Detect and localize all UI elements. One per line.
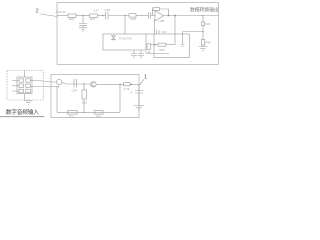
svg-text:R32: R32	[96, 115, 102, 119]
svg-text:R30: R30	[160, 48, 166, 52]
resistor R29 feedback	[153, 8, 160, 11]
svg-text:1: 1	[144, 75, 147, 81]
node junction D	[168, 15, 170, 17]
capacitor C32 between blocks	[147, 44, 151, 50]
svg-text:103: 103	[82, 101, 87, 105]
wire U2 pin down 1	[133, 50, 135, 54]
capacitor C34 series	[74, 79, 76, 87]
wire Q1 to R34	[96, 83, 123, 85]
resistor R33	[82, 90, 87, 99]
crystal Y1	[111, 36, 116, 40]
capacitor C26	[79, 24, 87, 26]
pin cell 4	[26, 84, 31, 87]
wire input L	[30, 81, 56, 83]
wire C27 to R28	[108, 15, 129, 17]
node junction B	[102, 15, 104, 17]
pin cell 2	[26, 79, 31, 82]
block border box 1 (bottom amplifier stage)	[51, 74, 139, 117]
node junction J	[202, 31, 204, 33]
leader line for label 2	[41, 14, 58, 17]
wire bottom rail	[57, 111, 120, 113]
node junction D2	[174, 15, 176, 17]
wire U2 pin down 2	[140, 50, 142, 54]
wire C33 to R35	[202, 26, 204, 40]
svg-text:数字音频输入: 数字音频输入	[6, 108, 39, 116]
pin cell 1	[19, 79, 24, 82]
node junction G	[83, 83, 85, 85]
svg-text:PCM1794: PCM1794	[119, 37, 132, 41]
wire op-amp output	[164, 15, 219, 17]
svg-text:C34: C34	[72, 89, 78, 93]
svg-text:2: 2	[36, 8, 39, 14]
feedback wire up	[151, 9, 154, 16]
wire R30 to junction D2 drop	[166, 44, 175, 46]
capacitor C39 series	[148, 12, 150, 18]
node junction H2	[131, 84, 133, 86]
pin wires left	[12, 81, 19, 92]
IC U2 DAC block	[103, 34, 146, 50]
connector J1	[17, 77, 32, 94]
wire down to C33	[202, 16, 204, 23]
wire junction C down to U2	[124, 16, 126, 35]
wire C32 to R30	[151, 44, 159, 46]
block border box 2 (top analog output stage)	[57, 3, 219, 65]
capacitor C36 polarized	[135, 91, 143, 94]
capacitor C27 series	[106, 12, 109, 20]
wire C36 to ground	[138, 93, 140, 106]
wire U3 output	[62, 83, 91, 85]
wire op-amp non-inverting input down	[154, 19, 156, 34]
ground	[181, 45, 185, 47]
polarity mark	[57, 86, 59, 88]
mixer U3	[57, 79, 62, 84]
node junction I	[83, 112, 85, 114]
node junction C	[124, 15, 126, 17]
transistor Q1	[91, 82, 97, 88]
capacitor C33	[201, 22, 204, 26]
leader line for label 1	[139, 79, 144, 85]
wire R28 to C39	[136, 15, 148, 17]
resistor R32	[95, 111, 104, 115]
svg-text:R26: R26	[69, 17, 75, 21]
wire junction D2 down to U4	[174, 16, 176, 45]
wire R33 to bottom rail	[83, 99, 85, 112]
wire R27 to C27	[98, 15, 106, 17]
wire bottom rule	[0, 116, 45, 118]
wire input R	[30, 86, 57, 88]
node junction A	[82, 15, 84, 17]
ground	[134, 106, 144, 111]
pin cell 5	[19, 89, 24, 92]
wire C39 to op-amp	[151, 15, 155, 17]
svg-text:4.7k: 4.7k	[124, 87, 130, 91]
resistor R30 inside U4	[158, 43, 166, 46]
pin cell 3	[19, 84, 24, 87]
svg-text:C28: C28	[105, 8, 111, 12]
svg-text:AOUTL: AOUTL	[56, 10, 67, 14]
resistor R27	[90, 14, 98, 18]
pin cell 6	[26, 89, 31, 92]
svg-text:R35: R35	[205, 41, 211, 45]
wire down to R33	[83, 84, 85, 90]
svg-text:R28: R28	[131, 17, 137, 21]
wire C30 stub	[133, 56, 135, 59]
node junction E	[202, 15, 204, 17]
svg-text:U1B: U1B	[159, 19, 165, 23]
resistor R26	[68, 14, 76, 18]
wire R34 to edge	[130, 83, 139, 85]
wire C31 stub	[140, 56, 142, 59]
IC U4 filter block	[154, 34, 190, 58]
wire J1 top stub	[24, 71, 26, 78]
resistor R35	[201, 40, 204, 46]
wire bypass drop	[182, 32, 184, 45]
svg-text:C27: C27	[94, 8, 100, 12]
wire down to C26	[82, 16, 84, 24]
capacitor C31	[138, 54, 144, 56]
wire bottom rail left drop	[56, 87, 58, 113]
capacitor C29 on top edge	[156, 30, 159, 34]
wire junction H down	[119, 84, 121, 112]
wire U2 to U4	[146, 33, 154, 35]
wire U4 to bypass node	[183, 31, 204, 33]
wire C26 to ground	[82, 25, 84, 27]
resistor R34	[124, 83, 131, 86]
node junction H	[119, 84, 121, 86]
wire inside U4	[146, 53, 169, 55]
ground	[79, 28, 87, 31]
svg-text:数模转换输出: 数模转换输出	[190, 6, 219, 13]
svg-text:R31: R31	[69, 115, 75, 119]
feedback wire to output	[160, 9, 169, 16]
wire down to C36	[138, 84, 140, 90]
wire input segment	[57, 15, 68, 17]
svg-text:+: +	[131, 91, 133, 95]
wire R35 to ground	[202, 45, 204, 47]
node junction K	[154, 44, 156, 46]
ground	[199, 47, 208, 51]
dashed box digital input	[7, 71, 43, 101]
svg-text:C33: C33	[205, 22, 211, 26]
wire J1 bottom stub	[24, 94, 26, 101]
svg-text:R27: R27	[90, 17, 96, 21]
wire R26 to R27	[76, 15, 90, 17]
resistor R28	[129, 14, 136, 17]
ground	[25, 101, 32, 105]
capacitor C30	[131, 54, 137, 56]
op-amp U1	[155, 11, 164, 22]
svg-text:C29: C29	[162, 30, 167, 34]
resistor R31	[68, 111, 78, 115]
